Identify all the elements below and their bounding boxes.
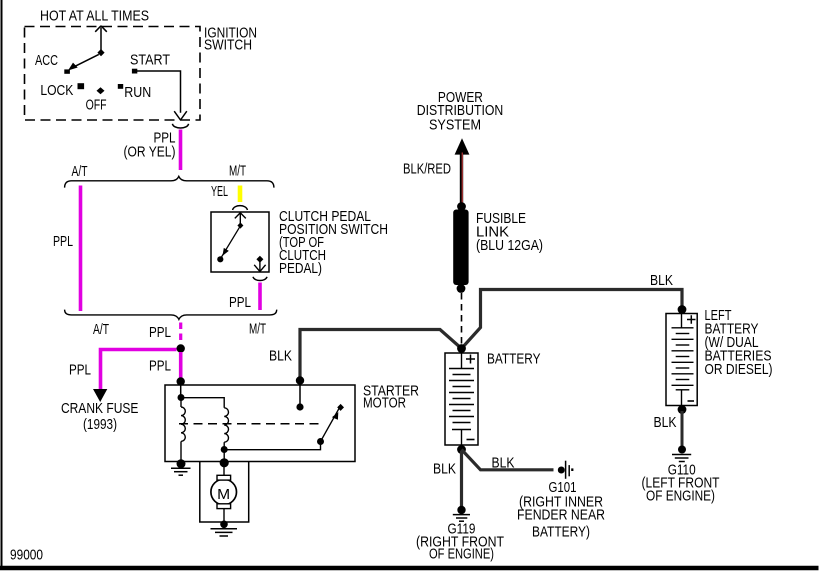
label G101 (RIGHT INNER FENDER NEAR BATTERY) <box>517 479 605 541</box>
battery <box>445 353 478 445</box>
wire into solenoid <box>180 383 182 398</box>
svg-text:BLK/RED: BLK/RED <box>403 161 451 178</box>
svg-text:PEDAL): PEDAL) <box>279 260 322 277</box>
junction battery positive <box>457 344 466 353</box>
ground G101 <box>558 461 574 479</box>
svg-text:BATTERY): BATTERY) <box>532 524 590 541</box>
brace split A/T M/T <box>65 176 274 187</box>
wire to motor <box>223 463 225 476</box>
clutch switch input arrow <box>235 213 246 226</box>
junction at starter input <box>177 377 185 385</box>
svg-text:OF ENGINE): OF ENGINE) <box>429 546 494 563</box>
junction below fusible link <box>457 284 466 293</box>
starter motor label <box>363 383 419 412</box>
label G119 (RIGHT FRONT OF ENGINE) <box>416 521 504 563</box>
svg-text:M/T: M/T <box>249 321 266 338</box>
svg-text:OR DIESEL): OR DIESEL) <box>705 361 773 378</box>
label G110 (LEFT FRONT OF ENGINE) <box>642 462 720 505</box>
ground starter case <box>171 459 191 475</box>
svg-text:RUN: RUN <box>124 84 151 101</box>
svg-text:BLK: BLK <box>650 272 673 289</box>
fusible link <box>453 210 468 286</box>
wire BLK to G101 <box>462 450 554 470</box>
arrow to power distribution <box>455 138 470 154</box>
svg-text:BATTERY: BATTERY <box>487 351 541 368</box>
svg-text:BLK: BLK <box>269 348 292 365</box>
wire BLK battery to starter <box>300 330 462 381</box>
svg-text:BLK: BLK <box>654 414 677 431</box>
svg-text:BLK: BLK <box>492 455 515 472</box>
svg-text:BLK: BLK <box>433 461 456 478</box>
svg-text:OFF: OFF <box>86 97 107 114</box>
RUN contact <box>118 84 123 89</box>
ground motor <box>211 521 238 537</box>
ground G119 <box>453 506 470 521</box>
svg-text:PPL: PPL <box>229 294 251 311</box>
junction battery negative <box>457 445 466 454</box>
START output wire with arrow <box>135 71 187 120</box>
svg-text:START: START <box>130 52 170 69</box>
rotor pivot diamond <box>97 49 104 56</box>
wire YEL M/T <box>238 186 243 203</box>
solenoid winding 1 <box>181 398 185 462</box>
wire BLK to G110 <box>681 411 684 446</box>
svg-text:M: M <box>217 486 230 503</box>
starter motor box <box>165 385 355 462</box>
junction above fusible link <box>457 202 466 211</box>
mechanical linkage dashed <box>179 423 324 425</box>
solenoid switch pivot <box>317 438 324 445</box>
motor housing box <box>200 462 249 523</box>
START contact <box>132 69 137 74</box>
junction solenoid windings <box>178 394 185 401</box>
crank fuse arrow <box>93 389 107 402</box>
battery feed arrow up <box>95 26 107 53</box>
ground G110 <box>672 446 691 462</box>
junction left battery negative <box>678 405 687 414</box>
svg-text:HOT AT ALL TIMES: HOT AT ALL TIMES <box>40 8 149 25</box>
svg-text:PPL: PPL <box>149 358 171 375</box>
svg-text:(BLU 12GA): (BLU 12GA) <box>476 237 543 254</box>
svg-text:SYSTEM: SYSTEM <box>429 117 481 134</box>
fusible link label <box>476 210 543 254</box>
svg-text:SWITCH: SWITCH <box>204 37 252 54</box>
svg-text:YEL: YEL <box>211 183 228 200</box>
clutch switch label <box>279 208 388 277</box>
junction PPL <box>177 344 185 352</box>
clutch switch output diamond <box>256 256 263 263</box>
solenoid fixed contact wire <box>299 385 301 407</box>
svg-text:PPL: PPL <box>149 324 171 341</box>
svg-text:M/T: M/T <box>229 163 246 180</box>
label CRANK FUSE (1993) <box>61 400 139 433</box>
svg-text:ACC: ACC <box>35 52 58 69</box>
LOCK contact <box>78 83 85 89</box>
svg-text:LOCK: LOCK <box>40 82 73 99</box>
svg-text:OF ENGINE): OF ENGINE) <box>646 488 715 505</box>
clutch switch pivot diamond <box>237 222 243 228</box>
clutch switch output arrow <box>254 262 265 272</box>
wire BLK/RED <box>460 153 464 206</box>
svg-text:A/T: A/T <box>93 321 109 338</box>
wire PPL dashed segment below brace <box>179 323 182 346</box>
solenoid switch blade <box>321 404 345 442</box>
branch wire to winding 2 <box>181 398 224 408</box>
ignition switch dashed box <box>25 27 201 121</box>
svg-text:PPL: PPL <box>53 233 73 250</box>
wire BLK to G119 <box>460 451 463 507</box>
ignition switch label <box>204 25 257 54</box>
solenoid winding 2 <box>224 408 228 463</box>
junction motor feed <box>220 458 229 467</box>
wire PPL to crank fuse <box>101 350 177 390</box>
wire PPL A/T branch <box>79 186 83 312</box>
wire to solenoid switch pivot <box>224 442 320 450</box>
left battery label <box>705 307 773 378</box>
rotor arm toward ACC <box>64 54 99 73</box>
wire PPL down to starter <box>179 352 183 378</box>
svg-text:A/T: A/T <box>72 163 88 180</box>
wire motor to ground <box>223 509 225 523</box>
connector above clutch switch <box>233 206 248 210</box>
svg-text:MOTOR: MOTOR <box>363 395 406 412</box>
brace join A/T M/T <box>65 310 277 320</box>
wire PPL (OR YEL) from ignition <box>179 130 183 171</box>
clutch switch blade <box>217 227 239 262</box>
motor M <box>211 475 237 508</box>
OFF contact diamond <box>97 87 105 94</box>
svg-text:(1993): (1993) <box>83 416 117 433</box>
junction BLK at starter <box>296 376 304 384</box>
junction winding 2 output <box>221 446 228 453</box>
svg-text:99000: 99000 <box>10 547 43 564</box>
svg-text:FENDER NEAR: FENDER NEAR <box>517 507 605 524</box>
power distribution label <box>417 89 504 134</box>
svg-text:PPL: PPL <box>69 362 91 379</box>
connector below ignition switch <box>172 124 188 128</box>
svg-text:(OR YEL): (OR YEL) <box>124 144 176 161</box>
wire BLK battery to left battery <box>462 290 683 349</box>
solenoid fixed contact <box>296 403 303 410</box>
junction left battery positive <box>678 305 687 314</box>
clutch pedal position switch box <box>211 212 269 272</box>
svg-text:CRANK FUSE: CRANK FUSE <box>61 400 139 417</box>
left battery <box>666 314 697 406</box>
wire PPL from clutch switch <box>258 283 262 311</box>
dashed wire fusible link to battery <box>461 293 463 344</box>
connector below clutch switch <box>253 277 267 281</box>
